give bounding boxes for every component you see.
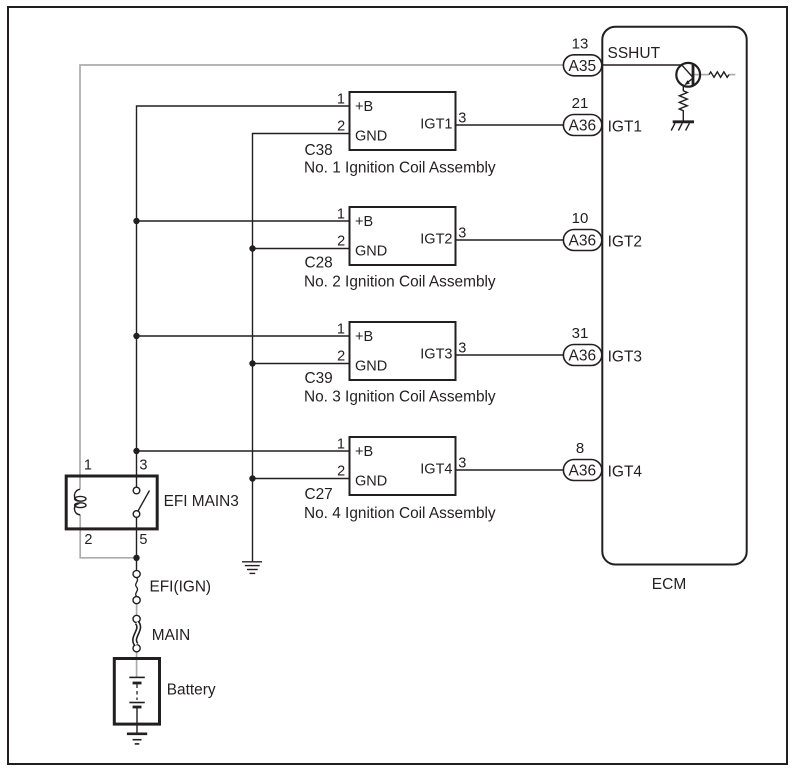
svg-text:3: 3 [458,110,466,126]
svg-text:3: 3 [458,455,466,471]
svg-text:No. 3 Ignition Coil Assembly: No. 3 Ignition Coil Assembly [304,389,496,406]
svg-text:Battery: Battery [167,682,216,699]
svg-text:GND: GND [355,244,387,260]
svg-text:1: 1 [337,437,345,453]
svg-text:IGT1: IGT1 [420,117,452,133]
svg-text:8: 8 [576,440,584,457]
svg-text:2: 2 [84,532,92,548]
svg-text:EFI(IGN): EFI(IGN) [150,578,212,595]
svg-text:IGT4: IGT4 [608,463,643,480]
svg-text:1: 1 [84,458,92,474]
svg-text:No. 1 Ignition Coil Assembly: No. 1 Ignition Coil Assembly [304,159,496,176]
svg-text:IGT1: IGT1 [608,118,642,135]
svg-text:+B: +B [355,99,373,115]
svg-text:21: 21 [572,95,589,112]
svg-text:2: 2 [337,463,345,479]
svg-text:31: 31 [572,325,589,342]
svg-text:3: 3 [458,225,466,241]
svg-text:IGT2: IGT2 [420,232,452,248]
svg-text:C38: C38 [305,142,333,159]
svg-text:+B: +B [355,329,373,345]
svg-text:ECM: ECM [652,576,686,593]
svg-text:C28: C28 [305,255,333,272]
svg-text:GND: GND [355,359,387,375]
svg-text:2: 2 [337,348,345,364]
svg-text:2: 2 [337,233,345,249]
svg-text:No. 4 Ignition Coil Assembly: No. 4 Ignition Coil Assembly [304,505,496,522]
svg-text:2: 2 [337,118,345,134]
svg-text:MAIN: MAIN [152,627,190,644]
svg-text:No. 2 Ignition Coil Assembly: No. 2 Ignition Coil Assembly [304,273,496,290]
svg-text:SSHUT: SSHUT [608,45,661,62]
svg-text:IGT3: IGT3 [420,347,452,363]
svg-text:A35: A35 [569,58,597,75]
svg-text:IGT2: IGT2 [608,233,642,250]
svg-text:3: 3 [458,340,466,356]
svg-text:GND: GND [355,474,387,490]
svg-text:10: 10 [572,210,589,227]
svg-text:C39: C39 [305,370,333,387]
svg-text:+B: +B [355,444,373,460]
svg-text:3: 3 [139,458,147,474]
svg-text:A36: A36 [569,118,597,135]
svg-text:+B: +B [355,214,373,230]
svg-text:A36: A36 [569,348,597,365]
svg-text:IGT3: IGT3 [608,348,642,365]
svg-text:IGT4: IGT4 [420,462,452,478]
svg-text:1: 1 [337,207,345,223]
svg-text:5: 5 [139,532,147,548]
svg-text:GND: GND [355,129,387,145]
svg-text:1: 1 [337,92,345,108]
svg-text:A36: A36 [569,233,597,250]
svg-text:1: 1 [337,322,345,338]
svg-text:C27: C27 [305,486,333,503]
svg-text:EFI MAIN3: EFI MAIN3 [164,493,239,510]
svg-text:A36: A36 [569,463,597,480]
svg-text:13: 13 [572,35,589,52]
